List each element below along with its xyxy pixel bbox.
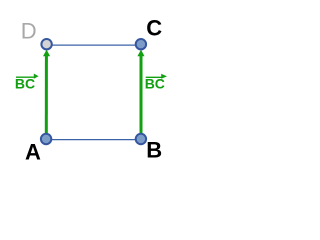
node D (gray point) <box>41 39 51 49</box>
wire segment DC (top edge) <box>47 44 141 46</box>
node B (blue point) <box>136 134 146 144</box>
vector BC (right green arrow) <box>137 50 144 139</box>
svg-text:B: B <box>146 138 162 163</box>
svg-text:D: D <box>21 19 37 44</box>
label vector BC (left) <box>15 74 39 92</box>
wire segment AB (bottom edge) <box>46 139 141 141</box>
node A (blue point) <box>41 134 51 144</box>
svg-text:C: C <box>146 16 162 41</box>
vector AD (left green arrow) <box>43 50 50 139</box>
node C (blue point) <box>136 39 146 49</box>
label vector BC (right) <box>145 74 167 92</box>
svg-text:A: A <box>25 140 41 165</box>
